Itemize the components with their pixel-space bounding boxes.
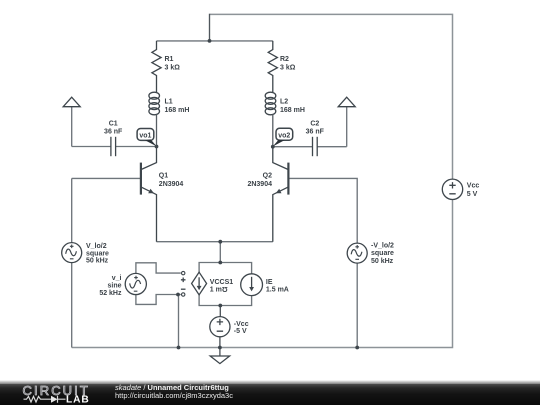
svg-text:1.5 mA: 1.5 mA <box>266 286 289 293</box>
capacitor C1 <box>110 137 112 156</box>
svg-text:50 kHz: 50 kHz <box>86 258 109 265</box>
svg-text:2N3904: 2N3904 <box>247 181 272 188</box>
logo diode arrow <box>51 396 58 403</box>
svg-text:Q2: Q2 <box>263 173 272 180</box>
resistor R2 <box>268 41 277 93</box>
svg-text:V_lo/2: V_lo/2 <box>86 243 107 250</box>
svg-text:168 mH: 168 mH <box>280 107 305 114</box>
svg-text:Ω: Ω <box>222 285 228 292</box>
svg-text:Q1: Q1 <box>159 173 168 180</box>
svg-text:1 m: 1 m <box>210 287 222 294</box>
logo resistor zigzag <box>24 396 52 402</box>
wire V_lo/2 to bottom rail <box>71 263 73 348</box>
current source IE <box>241 274 263 296</box>
svg-text:LAB: LAB <box>66 395 90 405</box>
wire v_i minus to bottom rail <box>178 295 180 348</box>
wire C2 to antenna right <box>317 146 347 148</box>
capacitor C2 <box>312 137 314 156</box>
node tag vo2 <box>276 128 293 140</box>
terminal minus sign <box>181 288 186 290</box>
footer shadow <box>0 380 540 384</box>
junction emitter rail <box>218 240 222 244</box>
svg-text:2N3904: 2N3904 <box>159 181 184 188</box>
svg-text:square: square <box>371 250 394 257</box>
inductor L1 <box>149 92 160 99</box>
svg-text:R2: R2 <box>280 56 289 63</box>
wire vo2 to C2 <box>273 146 313 148</box>
wire current source bracket bottom <box>199 295 252 306</box>
antenna flag right <box>338 97 355 107</box>
svg-text:L1: L1 <box>165 99 173 106</box>
junction bottom rail center <box>218 346 222 350</box>
svg-text:Vcc: Vcc <box>467 183 480 190</box>
terminal plus <box>182 271 185 274</box>
footer url text <box>115 391 233 400</box>
svg-text:square: square <box>86 250 109 257</box>
wire v_i plus terminal <box>136 263 181 274</box>
footer bar <box>0 384 540 405</box>
ground <box>210 356 229 364</box>
node vo2 junction <box>271 145 275 149</box>
wire -Vcc to bottom rail <box>219 337 221 348</box>
voltage source Vcc <box>442 179 462 199</box>
svg-text:-Vcc: -Vcc <box>234 321 249 328</box>
inductor L2 <box>265 92 276 99</box>
svg-text:50 kHz: 50 kHz <box>371 258 394 265</box>
junction bottom rail left <box>177 346 181 350</box>
svg-text:VCCS1: VCCS1 <box>210 279 233 286</box>
svg-text:vo1: vo1 <box>139 132 151 139</box>
node tag vo1 <box>137 129 154 141</box>
voltage source -V_lo/2 <box>347 243 367 263</box>
wire Q2 base to -V_lo/2 <box>289 178 357 243</box>
svg-text:R1: R1 <box>165 56 174 63</box>
svg-text:3 kΩ: 3 kΩ <box>165 65 181 72</box>
footer title text <box>115 383 229 392</box>
junction bottom rail right <box>355 346 359 350</box>
svg-text:36 nF: 36 nF <box>306 129 325 136</box>
wire emitters to current sources <box>219 242 221 263</box>
svg-text:v_i: v_i <box>112 275 122 282</box>
current source VCCS1 <box>192 272 207 295</box>
svg-text:168 mH: 168 mH <box>165 107 190 114</box>
wire Q1 base <box>72 177 141 179</box>
voltage source -Vcc <box>210 317 230 337</box>
wire C1 left <box>72 146 111 148</box>
svg-text:C2: C2 <box>310 121 319 128</box>
svg-text:IE: IE <box>266 279 273 286</box>
junction bracket top <box>218 261 222 265</box>
wire R1-R2 top connection <box>157 40 273 42</box>
antenna flag left <box>63 97 80 107</box>
terminal minus <box>182 293 185 296</box>
svg-text:C1: C1 <box>109 121 118 128</box>
voltage source v_i <box>125 273 146 294</box>
transistor Q1 <box>141 147 157 170</box>
svg-text:-V_lo/2: -V_lo/2 <box>371 243 394 250</box>
wire C1 right to vo1 <box>116 146 157 148</box>
wire antenna right stem <box>346 107 348 147</box>
node vo1 junction <box>155 145 159 149</box>
CircuitLab logo <box>22 384 97 405</box>
svg-text:vo2: vo2 <box>278 132 290 139</box>
resistor R1 <box>152 41 161 93</box>
svg-text:L2: L2 <box>280 99 288 106</box>
wire v_i minus terminal <box>136 294 181 305</box>
terminal plus sign <box>181 278 186 283</box>
wire top rail <box>210 14 453 179</box>
svg-text:sine: sine <box>107 283 121 290</box>
wire top junction to rail <box>209 14 211 41</box>
wire emitter rail <box>157 241 273 243</box>
wire -V_lo/2 to bottom rail <box>356 263 358 347</box>
wire antenna left stem <box>71 107 73 147</box>
transistor Q2 <box>273 147 289 170</box>
wire bottom rail <box>72 200 453 348</box>
junction v_i minus <box>176 293 180 297</box>
svg-text:3 kΩ: 3 kΩ <box>280 65 296 72</box>
wire L1 to node vo1 <box>156 115 158 147</box>
voltage source V_lo/2 <box>62 243 82 263</box>
svg-text:36 nF: 36 nF <box>104 129 123 136</box>
wire ground stem <box>219 348 221 357</box>
wire L2 to node vo2 <box>272 115 274 147</box>
junction node R top <box>208 39 212 43</box>
wire VCCS bottom to -Vcc <box>219 306 221 317</box>
svg-text:52 kHz: 52 kHz <box>99 290 122 297</box>
svg-text:5 V: 5 V <box>467 191 478 198</box>
wire current source bracket top <box>199 263 252 274</box>
svg-text:-5 V: -5 V <box>234 328 247 335</box>
wire V_lo/2 top <box>71 178 73 242</box>
junction bracket bottom <box>218 304 222 308</box>
